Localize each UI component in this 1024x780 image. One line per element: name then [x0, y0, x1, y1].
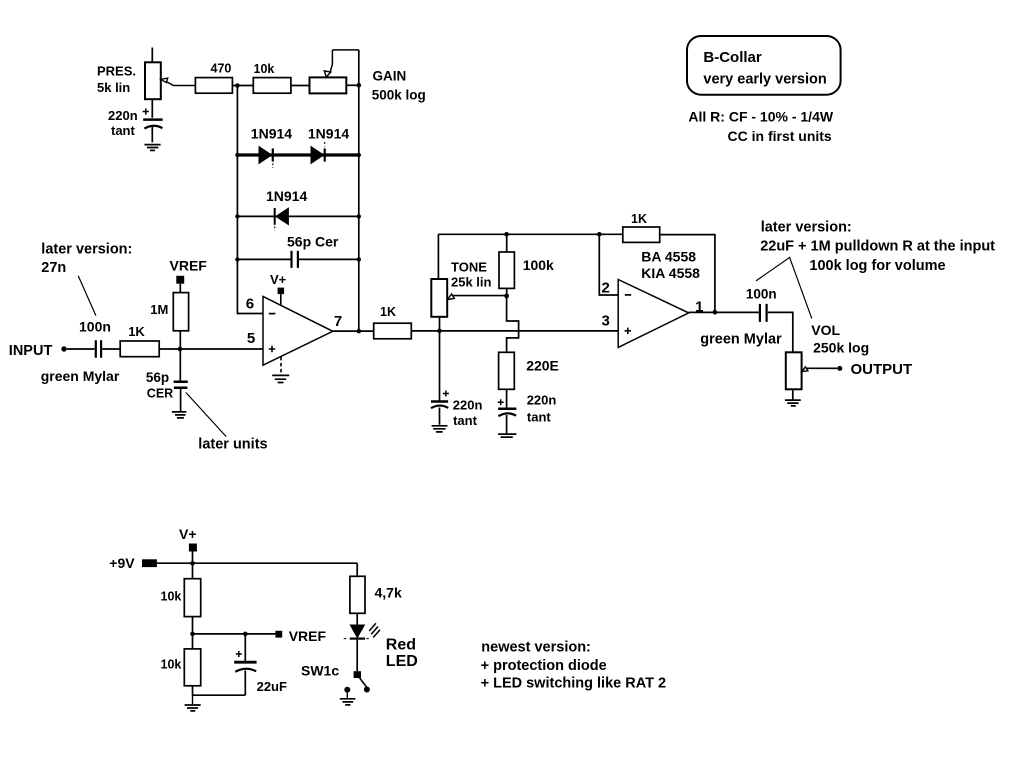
ground below divider	[185, 705, 201, 711]
node left end diode row	[235, 153, 239, 157]
capacitor C 220n tant (tone) plus sign	[498, 399, 504, 405]
capacitor C 56p Cer plates	[292, 251, 298, 268]
svg-text:V+: V+	[179, 526, 197, 542]
svg-text:220E: 220E	[526, 357, 559, 373]
node op1 output junction	[357, 329, 362, 334]
resistor R 10k (divider bottom)	[184, 649, 200, 686]
svg-text:56p Cer: 56p Cer	[287, 233, 339, 249]
svg-text:10k: 10k	[254, 62, 275, 76]
wire 4,7k to LED	[356, 613, 358, 625]
ground below 220n (tone pot)	[432, 426, 448, 432]
wire LED to switch	[356, 640, 358, 672]
svg-text:TONE: TONE	[451, 260, 487, 275]
wire VOL pot bottom	[792, 389, 794, 399]
op-amp U1b minus input mark	[625, 294, 631, 296]
wire TONE pot bottom to cap	[439, 317, 441, 401]
resistor R 470	[195, 78, 232, 94]
node junction op2 pin2 branch	[597, 232, 602, 237]
callout lines later version output	[756, 257, 812, 318]
capacitor C 220n tant (tone pot) curved plate	[431, 406, 448, 409]
svg-text:tant: tant	[453, 413, 478, 428]
svg-text:1K: 1K	[631, 212, 647, 226]
wire +9V rail	[157, 562, 357, 564]
potentiometer PRES 5k lin	[145, 62, 161, 99]
wire rail down to TONE pot	[437, 234, 439, 279]
ground below 56p CER	[172, 412, 186, 418]
switch SW1c contact right	[364, 687, 370, 693]
svg-text:1K: 1K	[380, 305, 396, 319]
wire tone top rail	[438, 233, 622, 235]
wire rail down to 4,7k	[356, 563, 358, 576]
node left end 56p row	[235, 257, 239, 261]
wire op2 output to 100n	[689, 311, 759, 313]
wire op1 ground stem dashed	[280, 357, 282, 373]
diode D2 1N914	[311, 147, 324, 164]
wire PRES pot bottom	[151, 99, 153, 118]
wire rail down to 10k	[192, 563, 194, 579]
svg-text:B-Collar: B-Collar	[703, 49, 762, 66]
svg-text:1M: 1M	[150, 302, 168, 317]
wire 100k top	[506, 234, 508, 252]
wire GAIN pot right	[346, 84, 359, 86]
svg-text:GAIN: GAIN	[373, 68, 407, 83]
wire 1K feedback to output	[660, 235, 715, 313]
power V+ square (supply)	[189, 544, 197, 552]
wire crossover jog to 220E	[507, 296, 519, 352]
power VREF square (supply)	[275, 631, 282, 638]
ground below switch	[340, 699, 356, 705]
wiper arrow of GAIN pot	[324, 71, 330, 77]
svg-text:tant: tant	[527, 409, 552, 424]
wire 100n to VOL pot	[768, 312, 793, 352]
node junction 100k top	[504, 232, 509, 237]
wiper arrow of VOL pot	[802, 367, 808, 372]
diode D3 1N914 reversed	[276, 208, 289, 224]
capacitor C 220n tant curved plate	[144, 126, 162, 129]
svg-text:CER: CER	[147, 386, 173, 400]
capacitor C 220n tant top plate	[143, 118, 162, 121]
svg-text:27n: 27n	[41, 260, 66, 276]
node junction V+ rail	[190, 561, 195, 566]
svg-text:100k: 100k	[523, 257, 554, 273]
ground below 220n tant	[144, 145, 160, 151]
svg-text:1K: 1K	[128, 324, 145, 339]
resistor R 220E	[499, 352, 515, 389]
node OUTPUT terminal dot	[837, 366, 842, 371]
capacitor C 220n tant (tone) curved plate	[498, 413, 516, 416]
wire reverse diode row	[237, 215, 358, 217]
wire GAIN wiper to top corner	[330, 50, 359, 72]
op-amp U1a plus input mark	[269, 346, 276, 353]
switch SW1c contact left	[344, 687, 350, 693]
wire TONE wiper to 100k bottom	[453, 295, 507, 297]
svg-text:10k: 10k	[161, 657, 182, 671]
op-amp U1a triangle	[263, 296, 333, 365]
svg-text:3: 3	[602, 313, 610, 330]
wire 220E to cap	[506, 389, 508, 407]
svg-text:VREF: VREF	[170, 258, 208, 274]
svg-text:22uF + 1M pulldown R at the in: 22uF + 1M pulldown R at the input	[760, 239, 995, 255]
wire op1 output	[333, 330, 374, 332]
op-amp U1b triangle	[618, 280, 689, 348]
svg-text:7: 7	[334, 313, 342, 330]
svg-text:+ protection diode: + protection diode	[481, 658, 607, 674]
annotation box B-Collar	[687, 36, 841, 95]
ground below 220n (tone)	[498, 434, 516, 437]
capacitor C 22uF top plate	[234, 661, 256, 664]
svg-text:5k lin: 5k lin	[97, 80, 130, 95]
op-amp U1b plus input mark	[625, 328, 631, 334]
svg-text:very early version: very early version	[703, 71, 826, 87]
resistor R 10k (gain network)	[253, 78, 291, 94]
wire cap to ground	[439, 408, 441, 425]
wire 10k to vref junction	[192, 617, 194, 649]
svg-text:6: 6	[246, 296, 254, 313]
wire 56p Cer row	[237, 258, 358, 260]
svg-text:BA 4558: BA 4558	[641, 249, 696, 265]
svg-text:100n: 100n	[746, 287, 777, 302]
power +9V terminal bar	[142, 559, 157, 567]
capacitor C 220n tant (tone pot) plus sign	[443, 391, 449, 397]
svg-text:newest version:: newest version:	[481, 640, 591, 656]
wire 1M top to VREF	[179, 284, 181, 293]
wire switch to ground	[346, 693, 348, 699]
capacitor C 100n green Mylar (input)	[96, 340, 101, 357]
svg-text:LED: LED	[386, 653, 418, 670]
node left end reverse diode row	[235, 214, 239, 218]
wire right feedback vertical	[358, 50, 360, 331]
svg-text:470: 470	[211, 62, 232, 76]
LED D4 cathode bar	[350, 637, 365, 639]
wire 100k bottom to junction	[506, 288, 508, 296]
svg-text:100k log for volume: 100k log for volume	[809, 258, 945, 274]
wire 10k to GAIN pot	[291, 85, 310, 87]
resistor R 100k	[499, 252, 514, 288]
svg-text:later version:: later version:	[761, 220, 852, 236]
resistor R 1M	[173, 293, 188, 331]
wire 1K to op2 pin3	[411, 330, 618, 332]
wiper arrow of TONE pot	[448, 294, 455, 300]
svg-text:later units: later units	[198, 437, 267, 453]
op-amp U1a minus input mark	[269, 313, 276, 315]
svg-text:+ LED switching like RAT 2: + LED switching like RAT 2	[481, 676, 666, 692]
node input junction	[178, 347, 183, 352]
switch SW1c pole square	[354, 671, 361, 678]
node junction after 470	[235, 83, 240, 88]
wire left feedback vertical	[237, 86, 263, 314]
potentiometer GAIN 500k log	[310, 77, 347, 93]
svg-text:1: 1	[695, 299, 703, 316]
svg-text:later version:: later version:	[41, 242, 132, 258]
ground below VOL	[785, 400, 801, 406]
wire bottom link 22uF	[193, 694, 246, 696]
svg-text:green Mylar: green Mylar	[41, 368, 120, 384]
power VREF square (input bias)	[176, 276, 184, 284]
svg-text:green Mylar: green Mylar	[700, 332, 782, 348]
wire 1M bottom to junction	[179, 331, 181, 349]
node junction op2 output	[713, 310, 718, 315]
svg-text:56p: 56p	[146, 370, 169, 385]
svg-text:PRES.: PRES.	[97, 64, 136, 79]
wire 22uF top	[244, 634, 246, 661]
power V+ square op1	[278, 288, 285, 295]
svg-text:220n: 220n	[527, 392, 557, 407]
node junction 100k bottom wiper	[504, 294, 509, 299]
svg-text:OUTPUT: OUTPUT	[851, 361, 913, 378]
svg-text:2: 2	[602, 279, 610, 296]
svg-text:100n: 100n	[79, 319, 111, 335]
svg-text:22uF: 22uF	[257, 679, 287, 694]
node GAIN right junction	[357, 83, 362, 88]
wire stub above PRES pot	[151, 48, 153, 63]
svg-text:220n: 220n	[108, 108, 138, 123]
callout line to later units	[186, 393, 226, 437]
wire 10k bottom	[192, 686, 194, 695]
capacitor C 56p CER plates	[174, 382, 188, 388]
resistor R 10k (divider top)	[184, 579, 200, 617]
ground below op1	[272, 375, 289, 382]
potentiometer TONE 25k lin	[431, 279, 447, 317]
svg-text:VOL: VOL	[811, 322, 840, 338]
wiper arrow of PRES pot	[161, 78, 168, 83]
wire stub dashed below right junction	[358, 159, 360, 172]
capacitor C 220n tant (presence) plus sign	[143, 108, 149, 114]
wire input to 100n	[67, 348, 95, 350]
wire cap to ground	[506, 415, 508, 433]
wire ground stem divider	[192, 695, 194, 704]
svg-text:V+: V+	[270, 272, 287, 287]
wire 470 to 10k	[232, 85, 253, 87]
node junction tone bottom on pin3 wire	[437, 329, 442, 334]
potentiometer VOL 250k log	[786, 352, 802, 389]
svg-text:220n: 220n	[453, 397, 483, 412]
capacitor C 22uF plus sign	[236, 651, 242, 657]
wire pin2 branch	[599, 234, 618, 295]
capacitor C 220n tant (tone pot) top plate	[431, 400, 448, 403]
svg-text:+9V: +9V	[109, 555, 135, 571]
LED D4 Red triangle	[350, 625, 364, 638]
capacitor C 220n tant (tone) top plate	[498, 407, 516, 410]
svg-text:5: 5	[247, 330, 255, 347]
svg-text:KIA 4558: KIA 4558	[641, 265, 700, 281]
wire 56p CER to ground	[180, 389, 182, 411]
wire 1K to op1 pin5	[159, 348, 263, 350]
svg-text:25k lin: 25k lin	[451, 274, 492, 289]
resistor R 1K (op2 feedback)	[623, 227, 660, 242]
svg-text:All R: CF - 10% - 1/4W: All R: CF - 10% - 1/4W	[688, 108, 833, 124]
wire wiper to 470	[167, 82, 196, 86]
callout line 27n to 100n	[78, 276, 96, 316]
node right end 56p row	[357, 257, 361, 261]
wire V+ to op1	[280, 294, 282, 306]
svg-text:500k log: 500k log	[372, 88, 426, 103]
switch SW1c lever	[359, 678, 366, 688]
wire VOL wiper to OUTPUT	[807, 367, 838, 369]
resistor R 4,7k	[350, 576, 365, 613]
wire VREF branch	[193, 633, 276, 635]
svg-text:250k log: 250k log	[813, 340, 869, 356]
capacitor C 22uF curved plate	[235, 669, 256, 672]
svg-text:SW1c: SW1c	[301, 663, 339, 679]
svg-text:Red: Red	[386, 637, 416, 654]
capacitor C 100n green Mylar (output)	[760, 304, 767, 322]
svg-text:10k: 10k	[161, 590, 182, 604]
node INPUT terminal dot	[61, 346, 66, 351]
wire V+ to rail	[192, 552, 194, 564]
node junction 22uF branch	[243, 632, 248, 637]
node right end reverse diode row	[357, 214, 361, 218]
wire junction down to 56p CER	[179, 349, 181, 380]
wire 22uF bottom	[244, 671, 246, 696]
wire 100n to 1K	[102, 348, 120, 350]
node right end diode row	[357, 153, 361, 157]
node junction VREF	[190, 632, 195, 637]
wire cap to ground	[151, 127, 153, 142]
svg-text:4,7k: 4,7k	[375, 585, 402, 601]
wire clipping diode row	[237, 153, 358, 156]
resistor R 1K (input)	[120, 341, 159, 357]
svg-text:1N914: 1N914	[251, 125, 292, 141]
svg-text:INPUT: INPUT	[9, 343, 53, 359]
svg-text:CC in first units: CC in first units	[728, 128, 832, 144]
LED light rays	[369, 623, 380, 637]
svg-text:1N914: 1N914	[266, 188, 307, 204]
svg-text:VREF: VREF	[289, 628, 327, 644]
diode D1 1N914	[259, 147, 272, 164]
svg-text:tant: tant	[111, 123, 136, 138]
resistor R 1K (op1 output)	[374, 323, 412, 339]
svg-text:1N914: 1N914	[308, 125, 349, 141]
